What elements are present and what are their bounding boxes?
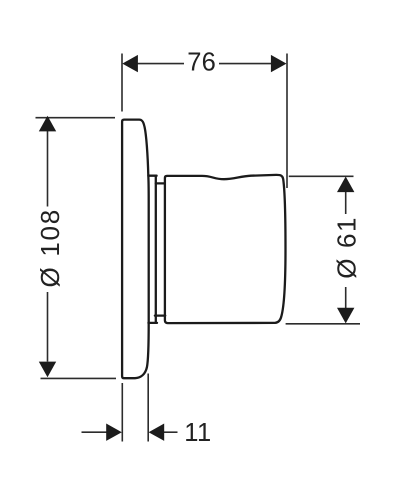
svg-text:76: 76 [187,49,216,77]
extension line right (76) [286,54,288,189]
svg-text:11: 11 [184,419,211,447]
knob outline [165,175,286,323]
extension line right (11) [147,374,149,442]
step flange-sleeve bottom [148,322,157,324]
step sleeve-knob top [156,182,165,184]
arrow 108 bottom [39,362,56,378]
svg-text:Ø 61: Ø 61 [332,216,362,279]
dimension line 61 lower part [345,287,347,309]
flange outline [122,120,149,379]
dimension line 61 upper part [345,191,347,214]
arrow 108 top [39,116,56,132]
arrow 61 top [337,177,354,193]
dimension 11 [82,374,178,442]
dimension 76 [122,54,287,189]
dimension line 76 right part [219,63,272,65]
arrow 11 right [149,424,165,441]
sleeve edge [155,177,157,322]
arrow 76 left [122,55,138,72]
svg-text:Ø 108: Ø 108 [35,208,65,287]
extension line top (61) [289,175,354,177]
extension line bottom (108) [41,377,117,379]
extension line left (76) [121,54,123,112]
arrow 76 right [271,55,287,72]
dimension tail left (11) [82,431,108,433]
dimension tail right (11) [163,431,178,433]
step sleeve-knob bottom [155,314,165,316]
extension line top (108) [36,117,116,119]
dimension line 108 upper part [47,130,49,207]
arrow 61 bottom [337,308,354,324]
dimension Ø108 [36,118,117,379]
extension line left (11) [121,383,123,442]
step flange-sleeve top [148,175,156,177]
dimension Ø61 [286,176,360,323]
dimension line 108 lower part [47,292,49,362]
arrow 11 left [106,424,122,441]
extension line bottom (61) [286,323,360,325]
dimension line 76 left part [137,63,184,65]
